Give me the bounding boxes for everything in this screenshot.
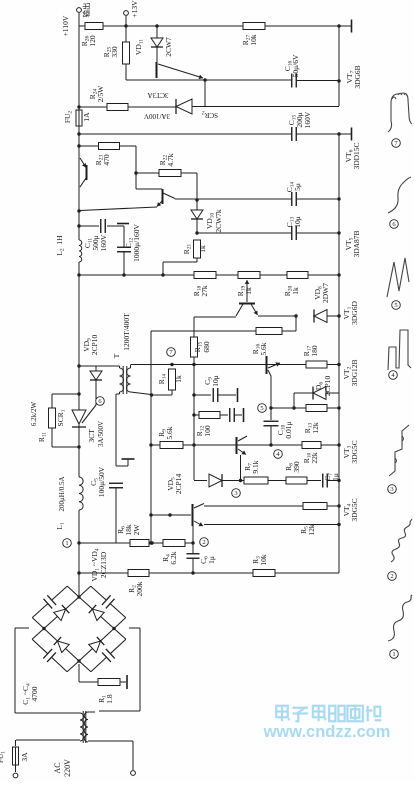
svg-text:5: 5 [260, 405, 263, 412]
svg-text:1k: 1k [198, 245, 207, 253]
svg-text:1k: 1k [244, 287, 253, 295]
svg-text:www.cndzz.com: www.cndzz.com [263, 723, 391, 741]
svg-text:3DG5C: 3DG5C [350, 440, 359, 463]
svg-text:12k: 12k [311, 422, 320, 434]
svg-text:2: 2 [202, 539, 205, 546]
svg-text:160V: 160V [303, 111, 312, 128]
svg-text:9.1k: 9.1k [251, 460, 260, 473]
svg-text:0.01μ: 0.01μ [284, 421, 293, 438]
svg-text:2CP14: 2CP14 [174, 474, 183, 495]
svg-text:1200T/400T: 1200T/400T [122, 313, 131, 351]
svg-text:5μ: 5μ [293, 183, 302, 191]
svg-text:4.7k: 4.7k [166, 153, 175, 166]
svg-text:12k: 12k [307, 524, 316, 536]
svg-text:10μ: 10μ [293, 216, 302, 228]
svg-text:3DG12B: 3DG12B [350, 359, 359, 386]
svg-text:2: 2 [390, 573, 393, 580]
svg-text:180: 180 [310, 345, 319, 357]
svg-text:1: 1 [65, 540, 68, 547]
svg-text:1: 1 [392, 651, 395, 658]
svg-text:120: 120 [88, 35, 97, 47]
svg-text:1μ: 1μ [207, 556, 216, 564]
svg-text:6.2k/2W: 6.2k/2W [30, 401, 38, 426]
svg-text:3DD15C: 3DD15C [352, 142, 361, 169]
svg-text:3DA87B: 3DA87B [352, 230, 361, 257]
svg-text:1A: 1A [82, 112, 91, 122]
svg-text:50μ/6V: 50μ/6V [291, 54, 300, 77]
svg-text:AC: AC [53, 762, 62, 773]
svg-text:2W: 2W [132, 524, 141, 536]
svg-text:6.2k: 6.2k [169, 551, 178, 564]
svg-text:160V: 160V [99, 234, 108, 251]
svg-text:390: 390 [292, 461, 301, 473]
svg-text:470: 470 [102, 154, 111, 166]
svg-text:100: 100 [203, 425, 212, 437]
svg-text:4700: 4700 [30, 686, 39, 701]
svg-text:3A: 3A [20, 752, 29, 762]
svg-text:10k: 10k [249, 34, 258, 46]
svg-text:3DG6B: 3DG6B [353, 65, 362, 88]
svg-text:680: 680 [202, 341, 211, 353]
svg-text:3DG6D: 3DG6D [350, 301, 359, 325]
svg-text:1k: 1k [291, 287, 300, 295]
svg-text:1k: 1k [174, 375, 183, 383]
svg-text:10μ: 10μ [211, 375, 220, 387]
svg-text:200μH/0.5A: 200μH/0.5A [58, 476, 66, 511]
svg-text:2CP10: 2CP10 [323, 376, 332, 397]
svg-text:+110V: +110V [61, 15, 70, 36]
svg-text:1.8: 1.8 [105, 694, 114, 704]
svg-text:3CT: 3CT [87, 429, 96, 443]
svg-text:2CP10: 2CP10 [90, 335, 99, 356]
svg-text:27k: 27k [200, 285, 209, 297]
svg-text:22k: 22k [310, 452, 319, 464]
svg-text:T: T [112, 353, 121, 358]
svg-text:2CW7: 2CW7 [164, 37, 173, 57]
svg-text:2CZ13D: 2CZ13D [99, 551, 108, 578]
svg-text:1H: 1H [55, 235, 64, 245]
svg-text:100μ/50V: 100μ/50V [97, 466, 106, 497]
svg-text:3A/100V: 3A/100V [144, 112, 170, 120]
svg-text:330: 330 [110, 46, 119, 58]
svg-text:3DG5C: 3DG5C [350, 498, 359, 521]
svg-text:2/5W: 2/5W [96, 85, 105, 103]
svg-text:1000μ/160V: 1000μ/160V [132, 224, 141, 262]
svg-text:+13V: +13V [130, 0, 139, 18]
svg-text:5.6k: 5.6k [259, 342, 268, 355]
svg-text:10k: 10k [259, 554, 268, 566]
svg-text:5: 5 [394, 302, 397, 309]
svg-text:3: 3 [390, 486, 393, 493]
svg-text:200k: 200k [135, 581, 144, 596]
svg-text:输出: 输出 [81, 3, 91, 18]
svg-text:2CW7k: 2CW7k [214, 209, 223, 233]
svg-text:5.6k: 5.6k [165, 426, 174, 439]
svg-text:3: 3 [234, 490, 237, 497]
svg-text:3CT3A: 3CT3A [148, 91, 169, 99]
svg-text:3A/500V: 3A/500V [97, 421, 105, 447]
svg-text:220V: 220V [63, 759, 72, 777]
svg-text:2DW7: 2DW7 [321, 283, 330, 303]
